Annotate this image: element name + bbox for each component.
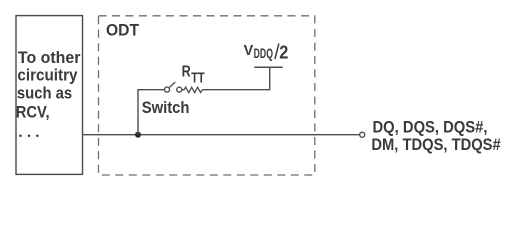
switch blade — [169, 82, 175, 87]
main horizontal wire — [83, 134, 360, 136]
junction node dot — [135, 132, 141, 138]
resistor RTT zigzag — [182, 87, 203, 92]
left circuitry box — [16, 16, 83, 175]
wire from resistor to VDDQ/2 rail — [202, 67, 269, 89]
svg-text:2: 2 — [279, 43, 288, 63]
svg-text:ODT: ODT — [106, 20, 140, 39]
svg-text:such as: such as — [17, 84, 72, 103]
resistor label R_TT — [182, 64, 205, 87]
svg-text:RCV,: RCV, — [16, 103, 50, 122]
svg-text:To other: To other — [18, 48, 81, 67]
svg-text:DQ, DQS, DQS#,: DQ, DQS, DQS#, — [373, 118, 488, 137]
ellipsis dots ". . ." — [19, 134, 38, 137]
svg-text:DM, TDQS, TDQS#: DM, TDQS, TDQS# — [371, 135, 501, 154]
VDDQ/2 label — [244, 42, 289, 63]
output terminal circle — [360, 132, 365, 137]
switch right contact — [177, 87, 182, 92]
switch left contact — [165, 87, 170, 92]
svg-text:V: V — [244, 42, 254, 59]
left box text "To other circuitry such as RCV," — [16, 48, 81, 121]
svg-text:R: R — [182, 64, 191, 81]
ODT dashed box — [99, 16, 315, 175]
svg-text:DDQ: DDQ — [254, 46, 273, 61]
svg-text:Switch: Switch — [142, 98, 190, 117]
node label DQ, DQS, DQS#, DM, TDQS, TDQS# — [371, 118, 501, 154]
VDDQ/2 rail bar — [254, 66, 282, 68]
wire riser from junction to switch — [138, 90, 164, 135]
svg-text:circuitry: circuitry — [17, 66, 78, 85]
svg-text:TT: TT — [191, 70, 205, 86]
